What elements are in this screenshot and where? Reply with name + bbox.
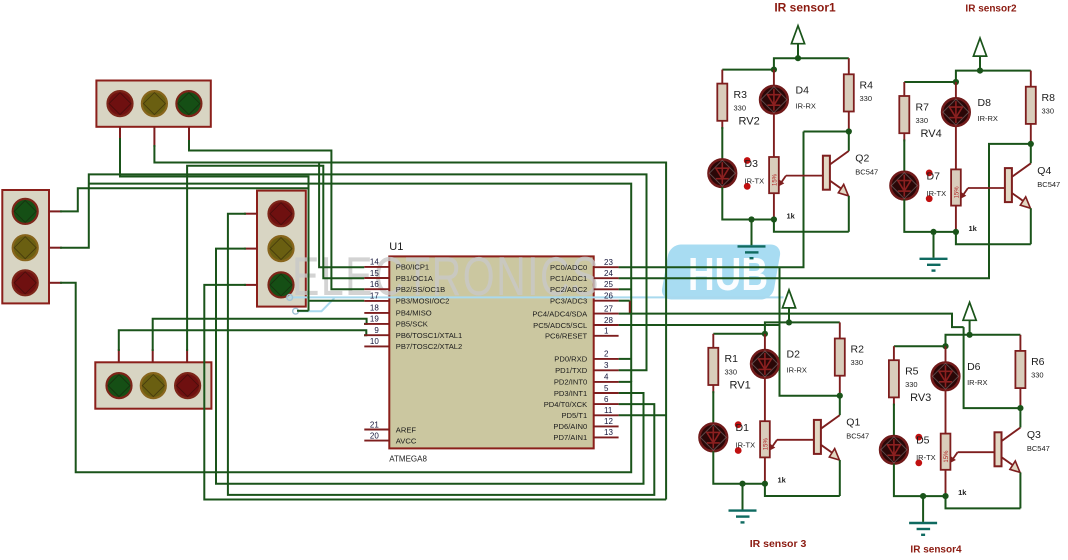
- U1 pin 25 PC2/ADC2: [550, 280, 619, 294]
- svg-text:3: 3: [604, 361, 609, 370]
- U1 pin 28 PC5/ADC5/SCL: [533, 316, 618, 330]
- svg-text:IR sensor4: IR sensor4: [910, 545, 962, 556]
- svg-text:25: 25: [604, 280, 613, 289]
- U1 pin 21 AREF: [364, 420, 416, 434]
- svg-text:RV1: RV1: [730, 380, 751, 392]
- svg-text:6: 6: [604, 395, 609, 404]
- wire emitter rail (IR sensor4): [946, 496, 1021, 508]
- U1 pin 18 PB4/MISO: [364, 304, 431, 318]
- wire U1 pin 11 tap: [619, 414, 667, 416]
- svg-text:IR-RX: IR-RX: [787, 366, 807, 375]
- U1 pin 13 PD7/AIN1: [553, 428, 618, 442]
- svg-text:RV4: RV4: [921, 128, 942, 140]
- potentiometer RV1 1k: [760, 377, 814, 484]
- wire TL4 amber to U1 pin 5 (PD3): [216, 249, 644, 484]
- svg-text:PD7/AIN1: PD7/AIN1: [553, 433, 587, 442]
- svg-text:17: 17: [370, 292, 379, 301]
- svg-text:D6: D6: [967, 361, 981, 373]
- svg-text:1k: 1k: [969, 224, 978, 233]
- wire U1 pin 2 tap: [619, 358, 632, 360]
- svg-text:9: 9: [374, 326, 379, 335]
- svg-text:21: 21: [370, 420, 379, 429]
- U1 pin 24 PC1/ADC1: [550, 269, 619, 283]
- svg-text:R2: R2: [851, 344, 865, 356]
- U1 pin 5 PD3/INT1: [554, 384, 619, 398]
- watermark ELECTRONICS HUB logo: [287, 245, 784, 315]
- svg-text:330: 330: [734, 104, 747, 113]
- svg-text:PB0/ICP1: PB0/ICP1: [396, 263, 429, 272]
- traffic light TL3 (bottom): [95, 349, 211, 409]
- svg-text:PB2/SS/OC1B: PB2/SS/OC1B: [396, 285, 445, 294]
- svg-text:PD0/RXD: PD0/RXD: [554, 355, 587, 364]
- power +V terminal (IR sensor2): [973, 38, 986, 71]
- resistor R4 330: [844, 58, 873, 131]
- svg-text:IR-TX: IR-TX: [916, 453, 936, 462]
- svg-text:19: 19: [370, 315, 379, 324]
- svg-text:D4: D4: [796, 85, 810, 97]
- svg-text:PC0/ADC0: PC0/ADC0: [550, 263, 587, 272]
- junction dots rail (IR sensor1): [771, 55, 801, 73]
- resistor R2 330: [835, 322, 864, 395]
- potentiometer RV2 1k: [769, 113, 823, 220]
- svg-text:26: 26: [604, 292, 613, 301]
- svg-text:PD6/AIN0: PD6/AIN0: [553, 422, 587, 431]
- svg-text:IR-TX: IR-TX: [927, 189, 947, 198]
- svg-text:16: 16: [370, 280, 379, 289]
- LED D1 IR-TX: [700, 391, 756, 454]
- svg-text:RV2: RV2: [739, 116, 760, 128]
- resistor R6 330: [1015, 335, 1044, 408]
- svg-text:Q2: Q2: [855, 153, 869, 165]
- svg-text:PC5/ADC5/SCL: PC5/ADC5/SCL: [533, 321, 587, 330]
- svg-text:330: 330: [1042, 106, 1055, 115]
- wire TL1 amber to U1 pin 11 bus (vertical x=666): [154, 145, 666, 500]
- ground (IR sensor 3): [729, 484, 757, 523]
- wire emitter rail (IR sensor 3): [765, 484, 840, 496]
- svg-text:28: 28: [604, 316, 613, 325]
- wire emitter rail (IR sensor1): [774, 220, 849, 232]
- svg-text:20: 20: [370, 431, 379, 440]
- wire TL4 red to U1 pin 6 (PD4): [228, 214, 654, 495]
- svg-text:18: 18: [370, 304, 379, 313]
- svg-text:1k: 1k: [778, 476, 787, 485]
- svg-text:BC547: BC547: [855, 168, 878, 177]
- wire TL3 red to U1 pin 15 (PB1): [187, 166, 364, 351]
- svg-text:13: 13: [604, 428, 613, 437]
- ground (IR sensor4): [909, 496, 937, 535]
- svg-text:D3: D3: [745, 158, 759, 170]
- wire bus to U1 pins 25/2/4 column: [89, 184, 631, 382]
- svg-text:PD1/TXD: PD1/TXD: [555, 366, 588, 375]
- svg-text:10: 10: [370, 337, 379, 346]
- wire TL1 red to U1 pin 3 (PD1/TXD): [120, 138, 364, 311]
- LED D6 IR-RX: [932, 346, 988, 390]
- resistor R1 330: [708, 334, 738, 393]
- svg-text:PC2/ADC2: PC2/ADC2: [550, 285, 587, 294]
- svg-text:15%: 15%: [763, 438, 769, 451]
- svg-text:IR sensor1: IR sensor1: [774, 1, 836, 15]
- svg-text:23: 23: [604, 258, 613, 267]
- svg-text:15%: 15%: [772, 173, 778, 186]
- svg-text:IR sensor 3: IR sensor 3: [750, 538, 807, 550]
- LED D2 IR-RX: [751, 334, 807, 378]
- svg-text:PB1/OC1A: PB1/OC1A: [396, 274, 434, 283]
- svg-text:PB6/TOSC1/XTAL1: PB6/TOSC1/XTAL1: [396, 331, 462, 340]
- traffic light TL1 (top): [96, 81, 210, 149]
- wire emitter rail (IR sensor2): [956, 232, 1031, 244]
- svg-text:ATMEGA8: ATMEGA8: [389, 455, 427, 464]
- wire U1 pin 24 to IR sensor2 output: [619, 144, 1031, 278]
- junction dots rail (IR sensor2): [953, 68, 983, 86]
- U1 pin 1 PC6/RESET: [545, 327, 619, 341]
- svg-text:330: 330: [916, 116, 929, 125]
- resistor R5 330: [889, 346, 919, 405]
- svg-text:PD2/INT0: PD2/INT0: [554, 378, 587, 387]
- wire U1 pin 28 (PC5): [619, 324, 780, 326]
- svg-text:PB5/SCK: PB5/SCK: [396, 320, 428, 329]
- svg-text:1k: 1k: [787, 212, 796, 221]
- U1 pin 4 PD2/INT0: [554, 373, 619, 387]
- wire U1 pin 26 to pin 27 link: [619, 301, 630, 314]
- svg-text:D5: D5: [916, 435, 930, 447]
- traffic light TL4 (middle): [244, 191, 306, 307]
- svg-text:PC6/RESET: PC6/RESET: [545, 332, 588, 341]
- power +V terminal (IR sensor 3): [782, 290, 795, 323]
- svg-text:R4: R4: [860, 80, 874, 92]
- wire U1 pin 27 rail to IR sensor4 supply: [619, 314, 964, 328]
- svg-text:R3: R3: [734, 89, 748, 101]
- svg-text:27: 27: [604, 304, 613, 313]
- wire TL1 green to U1 pin 16 (PB2): [189, 140, 364, 289]
- svg-text:12: 12: [604, 417, 613, 426]
- svg-text:14: 14: [370, 258, 379, 267]
- U1 pin 27 PC4/ADC4/SDA: [532, 304, 618, 318]
- svg-text:BC547: BC547: [1037, 180, 1060, 189]
- svg-text:IR-TX: IR-TX: [745, 177, 765, 186]
- svg-text:PC3/ADC3: PC3/ADC3: [550, 297, 587, 306]
- wire D5 to ground rail (IR sensor4): [894, 464, 946, 497]
- svg-text:R1: R1: [725, 353, 739, 365]
- U1 pin 3 PD1/TXD: [555, 361, 618, 375]
- svg-text:R8: R8: [1042, 92, 1056, 104]
- wire D7 to ground rail (IR sensor2): [904, 199, 956, 232]
- svg-text:D8: D8: [978, 97, 992, 109]
- wire TL2 red to U1 pin 4 (PD2/INT0): [60, 283, 631, 473]
- svg-text:PC4/ADC4/SDA: PC4/ADC4/SDA: [532, 309, 588, 318]
- LED D4 IR-RX: [760, 70, 816, 114]
- U1 pin 19 PB5/SCK: [364, 315, 428, 329]
- wire TL3 green to U1 pin 9 (PB6): [119, 330, 366, 351]
- wire supply rail (IR sensor 3): [713, 322, 840, 333]
- wire branch to U1 pin 25 (PC2): [619, 288, 632, 290]
- U1 pin 12 PD6/AIN0: [553, 417, 618, 431]
- svg-text:4: 4: [604, 373, 609, 382]
- svg-text:2: 2: [604, 350, 609, 359]
- wire supply rail (IR sensor2): [904, 71, 1031, 82]
- svg-text:PB3/MOSI/OC2: PB3/MOSI/OC2: [396, 297, 450, 306]
- svg-text:BC547: BC547: [846, 432, 869, 441]
- svg-text:PB7/TOSC2/XTAL2: PB7/TOSC2/XTAL2: [396, 342, 462, 351]
- U1 pin 26 PC3/ADC3: [550, 292, 619, 306]
- resistor R7 330: [899, 82, 929, 141]
- svg-text:RV3: RV3: [910, 392, 931, 404]
- wire TL3 amber to U1 pin 19 (PB5): [153, 319, 367, 351]
- wire branch to U1 pin 14 (PB0): [319, 163, 364, 268]
- LED D8 IR-RX: [942, 82, 998, 126]
- potentiometer RV3 1k: [941, 390, 995, 497]
- svg-text:330: 330: [860, 94, 873, 103]
- transistor Q1 BC547: [814, 396, 869, 496]
- U1 pin 20 AVCC: [364, 431, 417, 445]
- svg-text:R7: R7: [916, 101, 930, 113]
- svg-text:Q3: Q3: [1027, 429, 1041, 441]
- wire TL2 amber to U1 pin 3 (PD1/TXD): [60, 174, 647, 370]
- resistor R8 330: [1026, 71, 1055, 144]
- traffic light TL2 (left): [2, 190, 62, 303]
- wire U1 pin 23 to IR sensor1/3 outputs: [619, 132, 849, 396]
- wire supply rail (IR sensor4): [894, 335, 1021, 346]
- transistor Q2 BC547: [823, 132, 878, 232]
- svg-text:15: 15: [370, 269, 379, 278]
- svg-text:15%: 15%: [954, 186, 960, 199]
- svg-text:IR-TX: IR-TX: [736, 441, 756, 450]
- svg-text:11: 11: [604, 406, 613, 415]
- svg-text:5: 5: [604, 384, 609, 393]
- svg-text:1: 1: [604, 327, 609, 336]
- U1 pin 16 PB2/SS/OC1B: [364, 280, 445, 294]
- svg-text:PC1/ADC1: PC1/ADC1: [550, 274, 587, 283]
- junction dots bottom (IR sensor1): [748, 128, 852, 222]
- ground (IR sensor1): [738, 220, 766, 259]
- wire D1 to ground rail (IR sensor 3): [713, 451, 765, 484]
- svg-text:IR-RX: IR-RX: [967, 378, 987, 387]
- junction dots bottom (IR sensor4): [920, 405, 1024, 499]
- junction dots rail (IR sensor 3): [762, 319, 792, 337]
- power +V terminal (IR sensor4): [963, 302, 976, 335]
- U1 pin 15 PB1/OC1A: [364, 269, 434, 283]
- svg-text:IR-RX: IR-RX: [796, 102, 816, 111]
- U1 pin 23 PC0/ADC0: [550, 258, 619, 272]
- svg-text:HUB: HUB: [688, 248, 768, 300]
- U1 pin 2 PD0/RXD: [554, 350, 618, 364]
- LED D3 IR-TX: [709, 127, 765, 190]
- LED D5 IR-TX: [880, 404, 936, 467]
- junction dots bottom (IR sensor2): [930, 141, 1034, 235]
- svg-text:BC547: BC547: [1027, 444, 1050, 453]
- svg-text:330: 330: [905, 380, 918, 389]
- U1 pin 14 PB0/ICP1: [364, 258, 429, 272]
- resistor R3 330: [717, 70, 747, 129]
- svg-text:330: 330: [1031, 371, 1044, 380]
- LED D7 IR-TX: [891, 139, 947, 202]
- U1 pin 10 PB7/TOSC2/XTAL2: [364, 337, 462, 351]
- potentiometer RV4 1k: [951, 126, 1005, 233]
- svg-text:D2: D2: [787, 349, 801, 361]
- svg-text:Q4: Q4: [1037, 165, 1051, 177]
- transistor Q4 BC547: [1005, 144, 1060, 244]
- svg-text:Q1: Q1: [846, 417, 860, 429]
- power +V terminal (IR sensor1): [791, 26, 804, 59]
- svg-text:R6: R6: [1031, 356, 1045, 368]
- svg-text:24: 24: [604, 269, 613, 278]
- svg-text:PD4/T0/XCK: PD4/T0/XCK: [544, 400, 587, 409]
- svg-text:AVCC: AVCC: [396, 436, 417, 445]
- svg-text:15%: 15%: [944, 450, 950, 463]
- svg-text:AREF: AREF: [396, 425, 417, 434]
- junction dots rail (IR sensor4): [942, 332, 972, 350]
- svg-text:PD3/INT1: PD3/INT1: [554, 389, 587, 398]
- U1 pin 6 PD4/T0/XCK: [544, 395, 619, 409]
- wire IR sensor4 output: [964, 327, 1021, 408]
- svg-text:330: 330: [725, 368, 738, 377]
- wire TL4 green bottom bus: [204, 285, 666, 500]
- U1 pin 11 PD5/T1: [561, 406, 618, 420]
- svg-text:1k: 1k: [958, 488, 967, 497]
- svg-text:D7: D7: [927, 170, 941, 182]
- U1 pin 17 PB3/MOSI/OC2: [364, 292, 449, 306]
- IC U1 ATMEGA8 body: [389, 241, 593, 464]
- svg-text:PB4/MISO: PB4/MISO: [396, 309, 432, 318]
- svg-text:IR-RX: IR-RX: [978, 114, 998, 123]
- wire D3 to ground rail (IR sensor1): [722, 187, 774, 220]
- junction dots bottom (IR sensor 3): [739, 393, 843, 487]
- svg-text:IR sensor2: IR sensor2: [965, 4, 1017, 15]
- U1 pin 9 PB6/TOSC1/XTAL1: [364, 326, 462, 340]
- svg-text:330: 330: [851, 358, 864, 367]
- svg-text:R5: R5: [905, 366, 919, 378]
- wire TL2 green to U1 pin 17 (PB3): [60, 188, 309, 211]
- ground (IR sensor2): [920, 232, 948, 271]
- transistor Q3 BC547: [995, 408, 1050, 508]
- wire supply rail (IR sensor1): [722, 58, 849, 69]
- svg-text:PD5/T1: PD5/T1: [561, 411, 587, 420]
- svg-text:D1: D1: [736, 422, 750, 434]
